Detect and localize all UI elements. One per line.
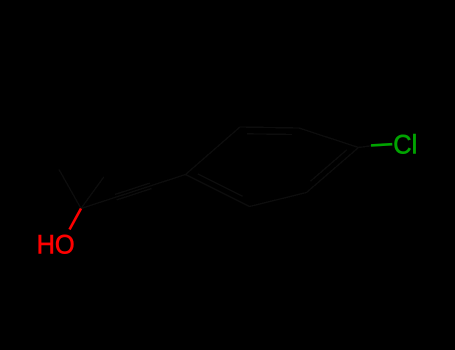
C-Cl bond dark half bbox=[359, 146, 372, 148]
chain single bonds C2-C3-C4-ring (collinear) bbox=[81, 175, 186, 209]
aromatic inner line top edge bbox=[247, 133, 292, 136]
methyl stub right from C2 bbox=[81, 177, 104, 209]
aromatic inner line lower-left edge bbox=[198, 174, 243, 196]
aromatic inner line lower-right edge bbox=[310, 150, 346, 182]
benzene ring outline bbox=[186, 127, 359, 207]
green C-Cl half bond bbox=[371, 144, 392, 145]
red O-C bond bbox=[70, 209, 82, 230]
svg-text:Cl: Cl bbox=[393, 130, 417, 160]
triple bond parallel lower bbox=[117, 189, 152, 200]
svg-text:HO: HO bbox=[37, 229, 75, 260]
methyl stub left from C2 bbox=[59, 170, 81, 209]
triple bond parallel upper bbox=[115, 183, 150, 194]
